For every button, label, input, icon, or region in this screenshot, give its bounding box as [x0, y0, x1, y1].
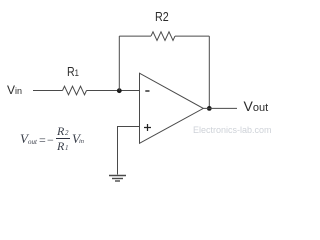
wire non-inverting input — [118, 127, 140, 175]
op-amp plus pin marker — [144, 127, 151, 129]
wire R1 to inverting input — [87, 90, 140, 92]
node A junction dot — [117, 88, 122, 93]
wire feedback right vertical — [208, 36, 210, 108]
wire feedback top left horizontal — [119, 35, 151, 37]
equation Vout = -R2/R1 Vin — [20, 128, 90, 154]
wire feedback top right horizontal — [175, 35, 209, 37]
wire Vin to R1 — [33, 90, 63, 92]
label R2 — [155, 10, 169, 24]
resistor R1 — [63, 86, 87, 95]
node output junction dot — [207, 106, 212, 111]
wire output — [203, 107, 237, 109]
resistor R2 — [151, 32, 175, 41]
label Vin — [7, 83, 22, 97]
watermark Electronics-lab.com — [193, 125, 272, 135]
op-amp minus pin marker — [145, 90, 149, 92]
op-amp U1 — [140, 73, 204, 143]
wire feedback left vertical — [118, 36, 120, 90]
ground — [109, 175, 126, 177]
label Vout — [244, 98, 269, 114]
label R1 — [67, 65, 79, 79]
